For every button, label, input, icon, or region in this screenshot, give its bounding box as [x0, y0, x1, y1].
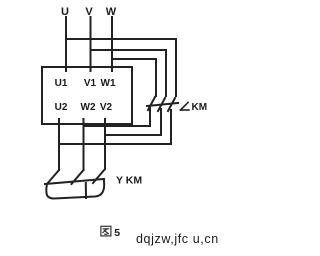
wire U branch to delta contactor pole 1 — [66, 39, 176, 96]
contactor KM-Y blade 2 — [72, 170, 84, 184]
star point shorting bar — [46, 181, 104, 199]
svg-text:W1: W1 — [101, 78, 116, 89]
svg-text:Y KM: Y KM — [116, 175, 142, 187]
svg-text:V: V — [85, 6, 93, 18]
contactor KM-delta label — [181, 102, 208, 113]
svg-text:W2: W2 — [81, 102, 96, 113]
motor terminal box — [42, 67, 132, 124]
contactor KM-Y blade 3 — [93, 169, 105, 183]
terminal V2 label — [100, 102, 113, 113]
wire U2 lead vertical — [58, 119, 60, 170]
svg-text:U2: U2 — [55, 102, 68, 113]
wire W2 lead vertical — [83, 119, 85, 170]
node V supply terminal label — [85, 6, 93, 18]
wire W supply vertical — [111, 17, 113, 71]
wire delta pole 2 to V2 — [106, 109, 161, 135]
svg-text:U1: U1 — [55, 78, 68, 89]
contactor KM-Y label — [116, 175, 142, 187]
wire V2 lead vertical — [104, 119, 106, 169]
wire delta pole 3 to U2 — [59, 110, 171, 144]
svg-text:V2: V2 — [100, 102, 113, 113]
node U supply terminal label — [61, 6, 69, 18]
wire W branch to delta contactor pole 3 — [112, 59, 156, 96]
wire U supply vertical — [65, 17, 67, 71]
star point middle stub — [85, 183, 87, 198]
svg-text:5: 5 — [114, 227, 120, 239]
terminal W1 label — [101, 78, 116, 89]
contactor KM-delta blade 1 — [148, 97, 155, 110]
contactor KM-delta linkage bar — [147, 103, 178, 106]
terminal W2 label — [81, 102, 96, 113]
watermark — [136, 232, 219, 246]
svg-text:KM: KM — [192, 102, 208, 113]
svg-text:V1: V1 — [84, 78, 97, 89]
contactor KM-delta blade 2 — [158, 98, 165, 111]
contactor KM-delta blade 3 — [168, 98, 175, 111]
contactor KM-Y linkage bar — [45, 179, 104, 184]
wire V branch to delta contactor pole 2 — [91, 50, 167, 96]
svg-text:dqjzw,jfc u,cn: dqjzw,jfc u,cn — [136, 232, 219, 246]
terminal U2 label — [55, 102, 68, 113]
node W supply terminal label — [106, 6, 117, 18]
wire delta pole 1 to W2 — [84, 108, 150, 126]
figure caption 图 5 — [101, 226, 120, 239]
contactor KM-Y blade 1 — [47, 170, 59, 184]
terminal U1 label — [55, 78, 68, 89]
terminal V1 label — [84, 78, 97, 89]
wire V supply vertical — [90, 17, 92, 71]
